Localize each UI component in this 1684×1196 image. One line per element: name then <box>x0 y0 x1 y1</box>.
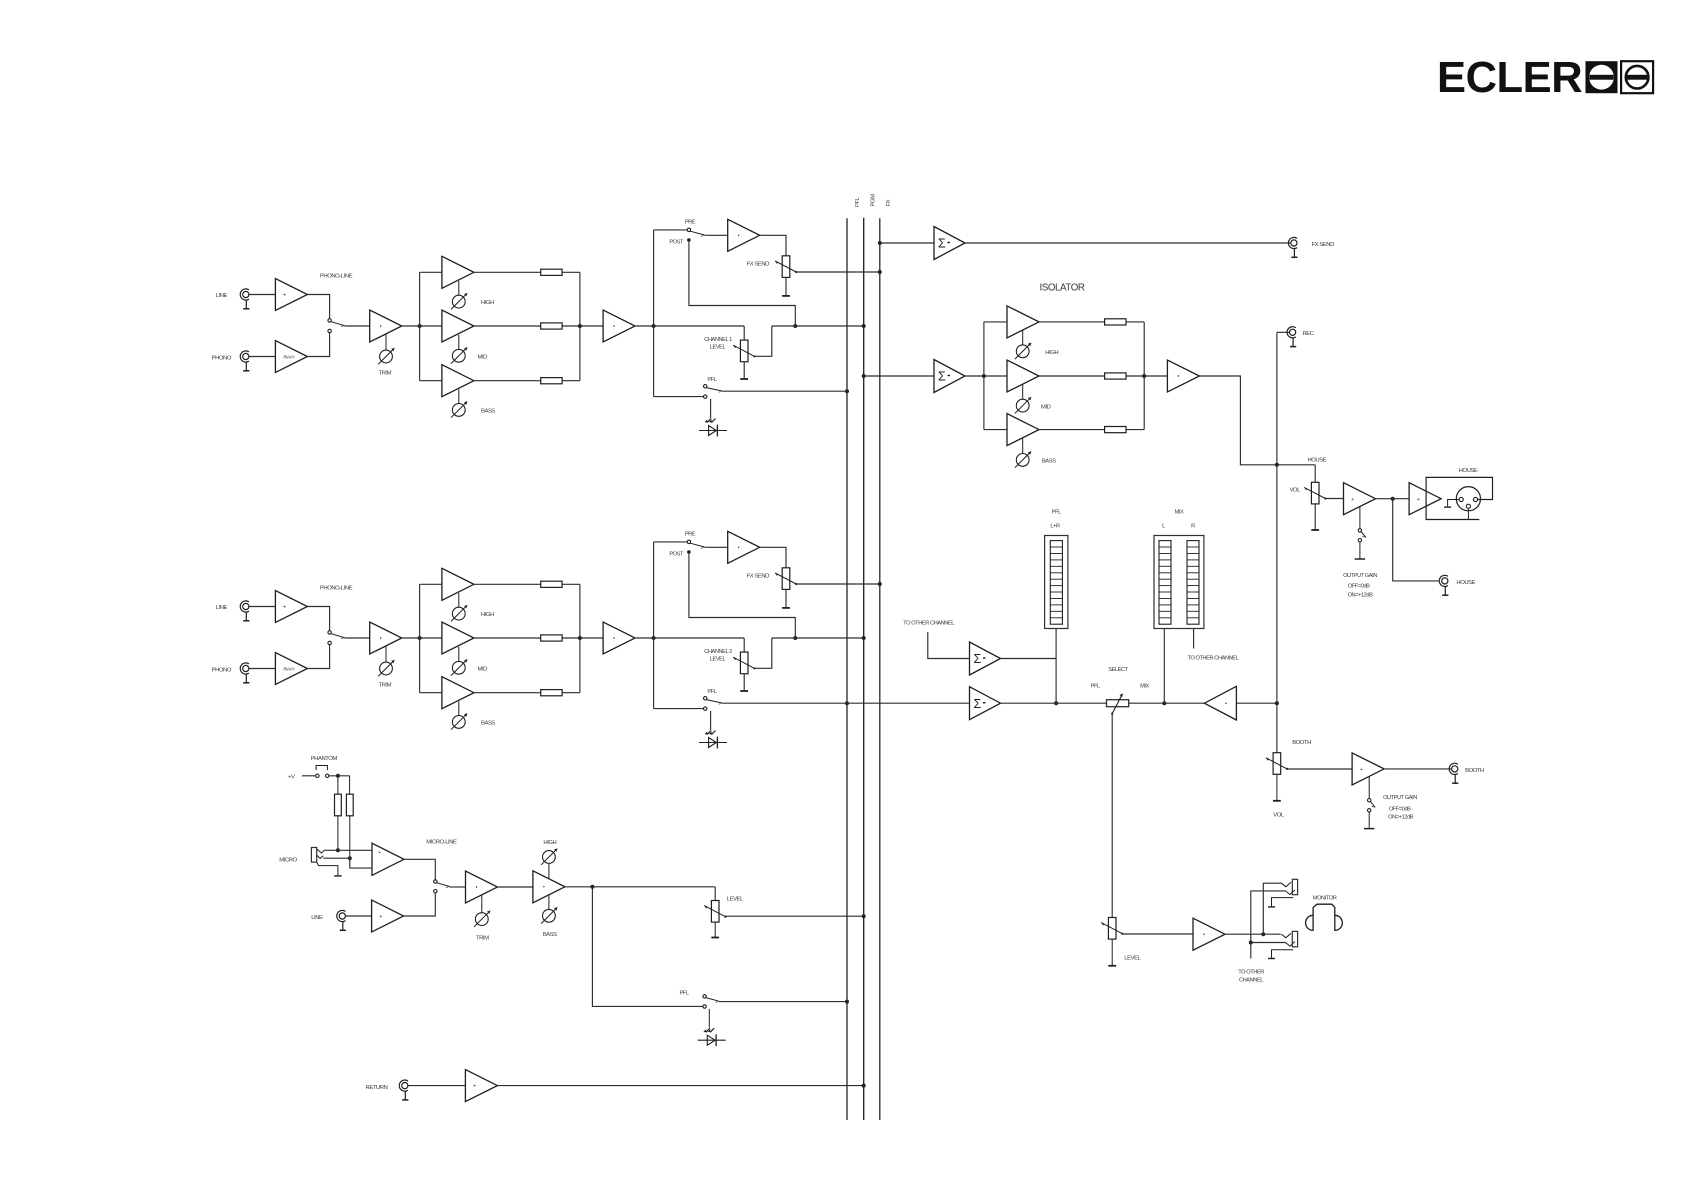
svg-text:RIAA+: RIAA+ <box>283 355 295 360</box>
wire micro PFL branch <box>592 887 703 1007</box>
svg-text:R: R <box>1191 524 1195 530</box>
connector HOUSE output (RCA) <box>1439 575 1475 595</box>
wire level wiper up to main CH2 <box>754 638 771 668</box>
wire PGM bus to PGM sum amp <box>864 375 934 377</box>
op-amp isolator MID <box>1007 360 1039 399</box>
wire to PFL LED CH1 <box>710 399 712 418</box>
svg-text:CHANNEL 1: CHANNEL 1 <box>704 337 732 343</box>
node PGM bus junction CH2 <box>862 636 866 640</box>
wire isolator BASS to resistor <box>1039 429 1104 431</box>
wire MID resistor to post-EQ amp CH1 <box>562 325 603 327</box>
op-amp EQ MID CH1 <box>442 310 474 349</box>
svg-text:HIGH: HIGH <box>481 300 494 306</box>
svg-text:PHANTOM: PHANTOM <box>311 756 338 762</box>
svg-text:OFF=0dB: OFF=0dB <box>1389 807 1411 813</box>
node EQ input junction CH2 <box>418 636 422 640</box>
wire EQ out to LEVEL pot <box>565 886 715 888</box>
wire branch vertical PRE-PFL CH2 <box>653 542 655 709</box>
node PGM sum input junction <box>862 374 866 378</box>
potentiometer MONITOR LEVEL <box>1101 918 1141 962</box>
ground HOUSE gain switch <box>1355 542 1365 559</box>
svg-text:LEVEL: LEVEL <box>710 657 726 663</box>
wire PFL switch to PFL bus CH2 <box>722 702 847 704</box>
connector LINE input CH2 (RCA) <box>216 601 250 621</box>
switch BOOTH output gain <box>1368 777 1376 812</box>
node R2 to mic- junction <box>348 856 352 860</box>
op-amp EQ HIGH CH1 <box>442 256 474 295</box>
switch PHONO-LINE CH2 <box>320 586 353 645</box>
wire FX SEND wiper to FX bus CH1 <box>796 271 880 273</box>
node R1 to mic+ junction <box>336 848 340 852</box>
potentiometer BASS CH1 <box>451 402 495 418</box>
ground micro LEVEL pot <box>711 922 719 937</box>
svg-text:VOL: VOL <box>1273 812 1285 818</box>
ground mic sleeve <box>317 862 342 876</box>
svg-text:+: + <box>1360 767 1363 773</box>
svg-text:POST: POST <box>669 239 684 245</box>
node PFL select junction <box>1054 701 1058 705</box>
wire mic - contact to amp <box>323 858 372 868</box>
node PFL bus junction CH2 <box>845 701 849 705</box>
svg-text:OUTPUT GAIN: OUTPUT GAIN <box>1343 573 1377 579</box>
op-amp TRIM CH2 <box>370 622 402 662</box>
wire PFL switch to PFL bus CH1 <box>722 390 847 392</box>
potentiometer MID CH2 <box>451 659 487 675</box>
meter MIX bargraph L/R <box>1154 510 1204 629</box>
op-amp post-EQ buffer CH1 <box>603 310 635 342</box>
svg-text:+: + <box>1417 497 1420 503</box>
svg-text:HIGH: HIGH <box>543 840 556 846</box>
svg-text:SELECT: SELECT <box>1108 667 1128 673</box>
wire isolator HIGH to resistor <box>1039 321 1104 323</box>
connector REC output (RCA) <box>1287 327 1315 347</box>
svg-text:HIGH: HIGH <box>1045 350 1058 356</box>
node master-monitor junction <box>1275 701 1279 705</box>
svg-text:MID: MID <box>1041 404 1051 410</box>
wire MID resistor to post-EQ amp CH2 <box>562 637 603 639</box>
svg-text:OFF=0dB: OFF=0dB <box>1348 584 1370 590</box>
svg-text:PFL: PFL <box>1052 510 1061 516</box>
connector RETURN input (RCA) <box>366 1080 409 1100</box>
svg-text:MIX: MIX <box>1140 683 1149 689</box>
wire switch to TRIM amp CH2 <box>345 637 370 639</box>
svg-text:ON=+12dB: ON=+12dB <box>1388 815 1414 821</box>
potentiometer FX SEND CH2 <box>747 568 798 590</box>
ground MONITOR LEVEL pot <box>1108 940 1116 966</box>
node FX bus junction CH1 <box>878 270 882 274</box>
svg-text:TRIM: TRIM <box>476 935 489 941</box>
potentiometer isolator MID <box>1015 397 1051 413</box>
node PGM bus junction CH1 <box>862 324 866 328</box>
label OUTPUT GAIN BOOTH <box>1383 795 1417 820</box>
op-amp HOUSE output gain stage <box>1344 483 1376 515</box>
wire LINE jack to buffer CH2 <box>249 606 275 608</box>
svg-text:BASS: BASS <box>481 721 495 727</box>
potentiometer isolator HIGH <box>1015 343 1059 359</box>
wire to PFL switch CH1 <box>654 396 704 398</box>
svg-text:LINE: LINE <box>311 915 323 921</box>
op-amp isolator BASS <box>1007 414 1039 454</box>
ground BOOTH VOL pot <box>1273 775 1285 819</box>
svg-text:TRIM: TRIM <box>378 683 391 689</box>
op-amp LINE buffer CH1 <box>275 279 307 311</box>
wire BASS resistor to sum CH1 <box>562 380 580 382</box>
svg-text:FX SEND: FX SEND <box>1312 242 1335 248</box>
op-amp line buffer MICRO channel <box>372 900 404 932</box>
op-amp RIAA preamp CH1 <box>275 341 307 373</box>
ground FX SEND pot CH1 <box>782 277 790 296</box>
wire PHONO jack to RIAA amp CH1 <box>249 356 275 358</box>
switch PFL MICRO channel <box>679 990 719 1008</box>
node micro PGM junction <box>862 914 866 918</box>
wire LINE buffer to PHONO-LINE switch CH1 <box>307 295 329 319</box>
node RETURN PGM junction <box>862 1084 866 1088</box>
svg-text:TRIM: TRIM <box>378 371 391 377</box>
connector MICRO input (jack) <box>279 848 324 864</box>
svg-text:BASS: BASS <box>481 409 495 415</box>
node jack tip junction <box>1261 932 1265 936</box>
node FX sum input junction <box>878 241 882 245</box>
wire into micro LEVEL pot <box>714 887 716 901</box>
label OUTPUT GAIN HOUSE <box>1343 573 1377 599</box>
wire HIGH amp to resistor CH2 <box>474 583 541 585</box>
wire isolator HIGH resistor to sum <box>1126 321 1144 323</box>
wire micro PFL switch to PFL bus <box>719 1001 847 1003</box>
wire FX bus to FX sum amp <box>880 242 934 244</box>
wire isolator output vertical <box>1143 322 1145 430</box>
op-amp RETURN buffer <box>465 1070 497 1102</box>
svg-text:MONITOR: MONITOR <box>1313 896 1337 902</box>
connector MONITOR jack upper <box>1281 879 1297 894</box>
svg-text:HOUSE: HOUSE <box>1456 580 1475 586</box>
svg-text:TO OTHER CHANNEL: TO OTHER CHANNEL <box>903 621 954 627</box>
potentiometer FX SEND CH1 <box>747 256 798 278</box>
wire TRIM to EQ amp <box>498 886 533 888</box>
resistor phantom R1 <box>335 776 342 851</box>
svg-text:BOOTH: BOOTH <box>1292 740 1311 746</box>
wire POST feedback CH2 <box>689 554 795 638</box>
wire post-EQ amp to level pot CH1 <box>635 325 744 327</box>
connector PHONO input CH1 (RCA) <box>212 351 250 371</box>
wire RIAA amp to PHONO-LINE switch CH2 <box>307 645 329 669</box>
svg-text:PRE: PRE <box>685 532 696 538</box>
wire line buffer to MICRO-LINE switch <box>404 893 436 916</box>
wire LEVEL wiper to monitor amp <box>1122 933 1193 935</box>
svg-text:HIGH: HIGH <box>481 612 494 618</box>
wire PFL sum to SELECT switch <box>1001 702 1107 704</box>
svg-text:PHONO: PHONO <box>212 668 232 674</box>
svg-text:PFL: PFL <box>707 377 716 383</box>
wire to PRE contact CH1 <box>654 229 688 231</box>
wire BASS amp to resistor CH1 <box>474 380 541 382</box>
potentiometer HIGH CH1 <box>451 293 494 309</box>
wire line jack to buffer <box>346 915 372 917</box>
node micro PFL bus junction <box>845 1000 849 1004</box>
LED PFL indicator CH1 <box>699 419 727 437</box>
connector LINE input CH1 (RCA) <box>216 289 250 309</box>
resistor isolator MID <box>1105 373 1126 379</box>
wire isolator MID to resistor <box>1039 375 1104 377</box>
wire HIGH resistor to sum CH2 <box>562 583 580 585</box>
wire to PFL LED CH2 <box>710 711 712 730</box>
svg-text:ECLER: ECLER <box>1437 54 1582 102</box>
wire post-EQ amp to level pot CH2 <box>635 637 744 639</box>
op-amp MIX to monitor buffer (left-facing) <box>1204 686 1236 720</box>
switch PFL CH1 <box>704 377 723 398</box>
svg-text:PHONO-LINE: PHONO-LINE <box>320 586 353 592</box>
wire SELECT to monitor buffer <box>1129 702 1205 704</box>
wire PHONO jack to RIAA amp CH2 <box>249 668 275 670</box>
wire to PFL switch CH2 <box>654 708 704 710</box>
op-amp EQ MICRO channel <box>533 871 565 903</box>
potentiometer BASS CH2 <box>451 714 495 730</box>
op-amp LINE buffer CH2 <box>275 591 307 623</box>
wire FX SEND wiper to FX bus CH2 <box>796 583 880 585</box>
switch PRE/POST CH1 <box>669 220 704 246</box>
op-amp EQ MID CH2 <box>442 622 474 661</box>
potentiometer isolator BASS <box>1015 452 1056 468</box>
potentiometer CHANNEL LEVEL CH2 <box>704 649 755 673</box>
wire RIAA amp to PHONO-LINE switch CH1 <box>307 333 329 357</box>
node EQ input junction CH1 <box>418 324 422 328</box>
resistor BASS mix CH1 <box>541 378 562 384</box>
label TO OTHER CHANNEL (jacks) <box>1238 969 1264 983</box>
wire main to PGM bus CH1 <box>772 325 864 327</box>
switch PFL CH2 <box>704 689 723 710</box>
svg-text:CHANNEL 2: CHANNEL 2 <box>704 649 732 655</box>
node micro PFL branch junction <box>590 885 594 889</box>
connector HOUSE output (XLR) <box>1426 468 1492 520</box>
svg-text:PFL: PFL <box>707 689 716 695</box>
switch HOUSE output gain <box>1358 507 1366 542</box>
potentiometer MID CH1 <box>451 347 487 363</box>
op-amp EQ BASS CH1 <box>442 365 474 404</box>
wire switch to TRIM amp CH1 <box>345 325 370 327</box>
wire BASS amp to resistor CH2 <box>474 692 541 694</box>
svg-text:BASS: BASS <box>1042 459 1056 465</box>
wire FX sum to FX SEND output <box>965 242 1290 244</box>
op-amp EQ HIGH CH2 <box>442 568 474 607</box>
svg-text:HOUSE: HOUSE <box>1308 458 1327 464</box>
connector MONITOR jack lower <box>1281 931 1297 946</box>
potentiometer LEVEL MICRO channel <box>704 896 744 922</box>
svg-text:PGM: PGM <box>870 194 876 207</box>
resistor MID mix CH1 <box>541 323 562 329</box>
wire LINE jack to buffer CH1 <box>249 294 275 296</box>
ground lower jack sleeve <box>1268 950 1293 959</box>
svg-text:+: + <box>379 914 382 920</box>
node isolator output junction <box>1142 374 1146 378</box>
op-amp FX send buffer CH2 <box>728 531 760 563</box>
svg-text:PFL: PFL <box>855 196 861 207</box>
wire PRE/POST common to FX amp CH2 <box>705 546 728 548</box>
op-amp post-EQ buffer CH2 <box>603 622 635 654</box>
wire return jack to amp <box>408 1085 465 1087</box>
wire to micro PFL LED <box>708 1009 710 1028</box>
node ring junction <box>1249 941 1253 945</box>
svg-text:FX SEND: FX SEND <box>747 262 770 268</box>
wire PGM sum to isolator <box>965 375 1007 377</box>
potentiometer TRIM MICRO channel <box>474 911 490 942</box>
ground level pot CH1 <box>740 362 748 379</box>
op-amp master buffer <box>1167 360 1199 392</box>
wire master amp to house node <box>1199 376 1315 465</box>
wire FX amp to FX SEND pot CH2 <box>760 547 786 568</box>
potentiometer BASS MICRO channel <box>541 895 557 938</box>
svg-text:LEVEL: LEVEL <box>710 345 726 351</box>
switch SELECT PFL/MIX <box>1091 667 1150 715</box>
op-amp HOUSE XLR driver <box>1409 483 1441 515</box>
op-amp FX send buffer CH1 <box>728 219 760 251</box>
wire main to PGM bus CH2 <box>772 637 864 639</box>
svg-text:+: + <box>473 1084 476 1090</box>
node house RCA branch junction <box>1391 497 1395 501</box>
svg-text:LINE: LINE <box>216 605 228 611</box>
wire level wiper up to main CH1 <box>754 326 771 356</box>
op-amp TRIM CH1 <box>370 310 402 350</box>
resistor HIGH mix CH2 <box>541 581 562 587</box>
svg-text:L: L <box>1162 524 1165 530</box>
svg-text:PHONO: PHONO <box>212 356 232 362</box>
wire POST feedback CH1 <box>689 242 795 326</box>
connector LINE input MICRO channel (RCA) <box>311 910 346 930</box>
wire to isolator HIGH <box>984 321 1007 323</box>
svg-text:BOOTH: BOOTH <box>1465 768 1484 774</box>
wire LINE buffer to PHONO-LINE switch CH2 <box>307 607 329 631</box>
potentiometer CHANNEL LEVEL CH1 <box>704 337 755 362</box>
resistor phantom R2 <box>346 776 353 858</box>
node FX/PFL branch junction CH1 <box>652 324 656 328</box>
op-amp PGM sum U-PGM <box>934 360 965 393</box>
wire EQ input vertical CH2 <box>419 584 421 692</box>
svg-text:Σ: Σ <box>974 697 982 711</box>
svg-text:CHANNEL: CHANNEL <box>1239 977 1263 983</box>
resistor isolator HIGH <box>1105 319 1126 325</box>
wire BOOTH pot to amp <box>1287 768 1352 770</box>
node FX bus junction CH2 <box>878 582 882 586</box>
LED PFL indicator CH2 <box>699 731 727 749</box>
svg-text:LEVEL: LEVEL <box>727 896 744 902</box>
node MIX meter L junction <box>1162 701 1166 705</box>
wire HIGH resistor to sum CH1 <box>562 271 580 273</box>
wire into HOUSE VOL pot <box>1314 465 1316 483</box>
bus PGM vertical <box>863 218 865 1120</box>
connector FX SEND output (RCA) <box>1288 237 1334 257</box>
node POST join junction CH1 <box>793 324 797 328</box>
ground upper jack sleeve <box>1268 898 1293 907</box>
wire phantom switch to resistors <box>329 775 350 777</box>
node PFL bus junction CH1 <box>845 389 849 393</box>
op-amp PFL meter sum <box>970 642 1001 675</box>
ground BOOTH gain switch <box>1364 812 1374 829</box>
wire PRE/POST common to FX amp CH1 <box>705 234 728 236</box>
svg-text:L+R: L+R <box>1050 524 1060 530</box>
wire VOL wiper to house amp <box>1325 498 1343 500</box>
resistor isolator BASS <box>1105 427 1126 433</box>
svg-text:POST: POST <box>669 551 684 557</box>
potentiometer BOOTH VOL <box>1266 740 1311 774</box>
op-amp MONITOR headphone amp <box>1193 918 1225 950</box>
bus PFL vertical <box>846 218 848 1120</box>
svg-text:Σ: Σ <box>938 237 946 251</box>
svg-text:MID: MID <box>478 667 488 673</box>
wire into level pot CH2 <box>743 638 745 652</box>
svg-text:PHONO-LINE: PHONO-LINE <box>320 274 353 280</box>
potentiometer HOUSE VOL <box>1290 482 1327 504</box>
LED PFL indicator MICRO channel <box>698 1028 726 1046</box>
wire monitor buffer to master line <box>1236 702 1277 704</box>
ground level pot CH2 <box>740 674 748 691</box>
wire to BASS amp CH1 <box>420 380 442 382</box>
wire HIGH amp to resistor CH1 <box>474 271 541 273</box>
wire MID amp to resistor CH2 <box>474 637 541 639</box>
svg-text:RIAA+: RIAA+ <box>283 667 295 672</box>
svg-text:PRE: PRE <box>685 220 696 226</box>
svg-text:OUTPUT GAIN: OUTPUT GAIN <box>1383 795 1417 801</box>
wire PFL meter stem <box>1055 629 1057 704</box>
meter PFL bargraph <box>1045 510 1068 629</box>
wire MID amp to resistor CH1 <box>474 325 541 327</box>
wire to HOUSE RCA <box>1393 499 1439 581</box>
wire EQ output vertical CH2 <box>579 584 581 692</box>
svg-text:ON=+12dB: ON=+12dB <box>1348 593 1374 599</box>
potentiometer HIGH MICRO channel <box>541 840 557 879</box>
node POST join junction CH2 <box>793 636 797 640</box>
resistor MID mix CH2 <box>541 635 562 641</box>
wire isolator MID resistor to master amp <box>1126 375 1167 377</box>
svg-text:MID: MID <box>478 355 488 361</box>
op-amp FX sum U-FX <box>934 227 965 260</box>
resistor HIGH mix CH1 <box>541 269 562 275</box>
potentiometer TRIM CH1 <box>378 348 394 376</box>
svg-text:BASS: BASS <box>543 932 557 938</box>
svg-text:MICRO: MICRO <box>279 858 297 864</box>
svg-text:+: + <box>283 293 286 299</box>
node EQ output junction CH2 <box>578 636 582 640</box>
wire BASS resistor to sum CH2 <box>562 692 580 694</box>
wire to upper jack tip <box>1263 883 1281 934</box>
wire isolator BASS resistor to sum <box>1126 429 1144 431</box>
potentiometer TRIM CH2 <box>378 660 394 688</box>
wire to HIGH amp CH1 <box>420 271 442 273</box>
wire TRIM to EQ input node CH2 <box>402 637 442 639</box>
wire PFL bus to PFL sum amp <box>847 702 970 704</box>
svg-text:LEVEL: LEVEL <box>1124 955 1141 961</box>
wire to REC connector <box>1277 331 1290 333</box>
wire MIX meter R stem <box>1193 629 1195 649</box>
op-amp PFL bus sum <box>970 687 1001 720</box>
wire RETURN amp to PGM bus <box>497 1085 863 1087</box>
svg-text:MICRO-LINE: MICRO-LINE <box>426 839 457 845</box>
svg-text:MIX: MIX <box>1175 510 1184 516</box>
icon headphones MONITOR <box>1306 896 1343 931</box>
wire branch vertical PRE-PFL CH1 <box>653 230 655 397</box>
op-amp BOOTH output <box>1352 753 1384 785</box>
resistor BASS mix CH2 <box>541 690 562 696</box>
wire to isolator BASS <box>984 429 1007 431</box>
node FX/PFL branch junction CH2 <box>652 636 656 640</box>
svg-text:LINE: LINE <box>216 293 228 299</box>
svg-text:Σ: Σ <box>974 652 982 666</box>
wire TRIM to EQ input node CH1 <box>402 325 442 327</box>
op-amp RIAA preamp CH2 <box>275 653 307 685</box>
wire PFL meter sum output <box>1001 658 1057 660</box>
wire monitor amp to jacks <box>1225 933 1281 935</box>
wire micro LEVEL wiper to PGM bus <box>725 915 863 917</box>
node phantom feed junction <box>336 774 340 778</box>
ground HOUSE VOL pot <box>1311 505 1319 531</box>
wire other-channel ring line <box>1251 891 1286 959</box>
